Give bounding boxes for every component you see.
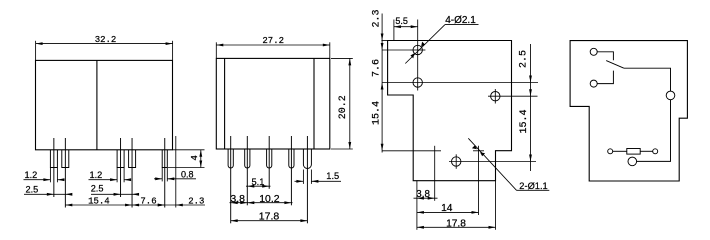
view3 left dim chain line <box>381 14 383 153</box>
view1 ext P1 edges <box>49 168 51 183</box>
view3 hole H2 (2.1) <box>413 78 422 87</box>
view1 case divider line <box>96 60 98 149</box>
view2 pin1 root <box>230 136 232 223</box>
view1 dim 4 line <box>200 150 202 168</box>
view1 relay case side outline <box>36 60 173 149</box>
view4 wire T2 up <box>597 71 613 84</box>
view1 pin P3 root <box>120 138 122 197</box>
view1 pin P5 root <box>164 138 166 208</box>
view4 coil terminal left <box>608 149 613 154</box>
svg-text:7.6: 7.6 <box>371 59 382 77</box>
view4 switch blade <box>606 61 624 69</box>
view2 arrows 1.5 pair <box>296 180 303 183</box>
view2 relay case front outline <box>216 58 329 149</box>
view3 H3 ticks and row line <box>488 95 538 97</box>
view4 wire T1 to pivot <box>597 52 613 61</box>
view2 pin3 <box>267 149 272 168</box>
view2 pin1 <box>228 149 233 168</box>
view1 dim 32.2 extension lines <box>35 41 37 60</box>
view2 dim 5.1 line <box>246 185 271 187</box>
view1 dim 32.2 line <box>36 43 173 45</box>
view4 terminal circle T3 <box>666 91 675 100</box>
view1 dim 2.5 left line <box>24 193 72 195</box>
svg-text:15.4: 15.4 <box>519 109 530 133</box>
svg-text:2.3: 2.3 <box>371 9 382 27</box>
view2 pin4 root <box>290 136 292 205</box>
view1 arrows 1.2 left pair <box>43 178 50 181</box>
view3 H4 ticks and row line <box>449 161 536 163</box>
svg-text:14: 14 <box>441 203 453 214</box>
view3 leader arrowhead 4-dia2.1 <box>421 42 425 47</box>
view2 dim 27.2 line <box>216 44 329 46</box>
view2 dim 1.5 line <box>295 180 304 182</box>
view1 dim 2.5 mid line <box>91 193 138 195</box>
svg-text:0.8: 0.8 <box>181 169 194 179</box>
view3 ext bottom right corner <box>495 181 497 230</box>
view1 arrows 0.8 pair <box>155 177 162 180</box>
view4 coil wire left <box>613 150 627 152</box>
view1 pin P2 <box>62 150 69 168</box>
view3 arrows 3.8 pair <box>417 197 424 200</box>
view3 arrows 14 pair <box>417 211 424 214</box>
view3 small hole C1 cross <box>382 150 441 152</box>
view3 PCB layout outline <box>388 41 512 181</box>
view1 pin P2 root <box>64 138 66 208</box>
svg-text:32.2: 32.2 <box>95 35 117 45</box>
svg-text:1.2: 1.2 <box>25 170 38 180</box>
view4 wire T3 down to COM line <box>637 100 671 162</box>
view2 pin5 root <box>306 136 308 223</box>
svg-text:4: 4 <box>189 155 200 161</box>
view1 arrows 15.4 pair <box>65 204 72 207</box>
view4 terminal circle T2 <box>590 80 597 87</box>
svg-text:2.5: 2.5 <box>91 183 104 193</box>
view4 wire blade to T3 <box>624 68 671 91</box>
view2 arrow 27.2 right <box>323 44 330 47</box>
svg-text:17.8: 17.8 <box>446 218 466 229</box>
view3 row line top edge to chain <box>381 40 387 42</box>
svg-text:15.4: 15.4 <box>371 101 382 125</box>
view4 coil terminal right <box>653 149 658 154</box>
view2 pin2 root <box>246 136 248 205</box>
view1 arrows 2.3 pair <box>158 204 165 207</box>
view2 arrow 20.2 top <box>348 58 351 65</box>
view2 pin2 <box>245 149 250 168</box>
view1 pin P1 <box>50 150 57 168</box>
view3 label 4-dia2.1 leader <box>405 25 445 64</box>
view2 arrow 27.2 left <box>216 44 223 47</box>
view1 arrow 32.2 right <box>166 42 173 45</box>
view4 terminal circle T1 <box>590 48 597 55</box>
view2 arrows 10.2 pair <box>247 201 254 204</box>
svg-text:17.8: 17.8 <box>259 211 280 223</box>
view1 dim 1.2 mid line <box>89 179 118 181</box>
svg-text:5.1: 5.1 <box>252 177 265 187</box>
view1 ext right of case for 2.3 <box>175 136 177 208</box>
view2 dim 20.2 ext lines <box>331 57 353 59</box>
view3 H1 H2 vertical centerline <box>417 20 419 91</box>
view3 H1 horizontal ticks <box>410 49 425 51</box>
view4 schematic outline <box>570 41 687 181</box>
view1 arrows 1.2 mid pair <box>110 178 117 181</box>
view3 dim 5.5 line <box>394 26 418 28</box>
svg-text:10.2: 10.2 <box>259 193 280 205</box>
view2 case inner left line <box>224 58 226 149</box>
view3 right dim chain line <box>530 44 532 171</box>
view2 pin5 <box>303 149 311 169</box>
svg-text:5.5: 5.5 <box>395 16 408 26</box>
view2 case inner right line <box>313 58 315 149</box>
view3 dim 5.5 ext line <box>393 20 395 41</box>
view1 arrow 32.2 left <box>36 42 43 45</box>
view1 pin P3 <box>117 150 124 168</box>
view1 pin P4 root <box>131 138 133 208</box>
svg-text:15.4: 15.4 <box>88 196 110 206</box>
view3 right chain arrows <box>529 76 532 83</box>
view3 arrows 17.8 pair <box>417 226 424 229</box>
view2 arrows 3.8 pair <box>231 201 238 204</box>
view2 arrow 20.2 bottom <box>348 142 351 149</box>
view3 small hole C2 cross <box>473 150 484 152</box>
view4 coil rectangle <box>627 149 640 155</box>
svg-text:4-Ø2.1: 4-Ø2.1 <box>445 15 476 26</box>
svg-text:27.2: 27.2 <box>262 36 284 46</box>
view2 pin3 root <box>268 136 270 189</box>
view1 dim 0.8 line <box>154 178 162 180</box>
svg-text:1.2: 1.2 <box>90 170 103 180</box>
svg-text:2.5: 2.5 <box>519 50 530 68</box>
svg-text:2.3: 2.3 <box>188 196 204 206</box>
view2 arrows 5.1 pair <box>247 185 254 188</box>
view3 label 2-dia1.1 underline <box>517 189 550 191</box>
view1 dim 1.2 left line <box>24 179 51 181</box>
view1 arrows 4 pair <box>199 150 202 157</box>
view2 pin4 <box>289 149 294 168</box>
svg-text:7.6: 7.6 <box>140 196 156 206</box>
view1 pin P1 root <box>53 138 55 197</box>
view3 hole H3 (2.1) <box>491 92 500 101</box>
view4 coil wire right <box>640 150 653 152</box>
svg-text:2.5: 2.5 <box>26 184 39 194</box>
view3 ext bottom left <box>416 181 418 230</box>
view2 dim 20.2 line <box>349 58 351 149</box>
svg-text:2-Ø1.1: 2-Ø1.1 <box>519 181 547 191</box>
view1 dim 4 ext top (case bottom extended) <box>173 149 205 151</box>
svg-text:3.8: 3.8 <box>230 193 245 205</box>
view3 hole H1 (2.1) <box>413 45 422 54</box>
view2 dim 27.2 ext lines <box>215 42 217 58</box>
view1 ext P5 edges <box>161 168 163 182</box>
view3 dim 17.8 line <box>417 226 496 228</box>
view1 dim chain 15.4 7.6 2.3 line <box>65 204 205 206</box>
svg-text:3.8: 3.8 <box>416 189 430 200</box>
view1 arrows 2.5 mid pair <box>114 193 121 196</box>
view2 dim 3.8 and 10.2 line <box>230 202 293 204</box>
view3 dim 14 line <box>417 211 479 213</box>
view1 pin P5 <box>162 150 167 168</box>
view2 ext pin5 edges <box>302 170 304 184</box>
view2 arrows 17.8 pair <box>231 219 238 222</box>
view1 dim 4 ext bottom <box>168 167 205 169</box>
view3 label 2-dia1.1 leader <box>468 138 516 190</box>
view3 row line hole2 (full width) <box>382 82 538 84</box>
view3 arrows 5.5 pair <box>394 25 401 28</box>
view3 left chain arrows <box>381 34 384 41</box>
view3 row line hole1 <box>382 49 410 51</box>
view1 pin P4 <box>129 150 136 168</box>
svg-text:1.5: 1.5 <box>326 171 339 181</box>
view1 arrows 7.6 pair <box>132 204 139 207</box>
view3 label 4-dia2.1 underline <box>445 24 479 26</box>
view3 dim 3.8 line <box>414 197 438 199</box>
view3 leader arrowhead 2-dia1.1 <box>480 152 485 156</box>
view2 dim 17.8 line <box>231 220 308 222</box>
view4 COM terminal circle <box>628 157 637 166</box>
view1 ext P3 edges <box>116 168 118 183</box>
svg-text:20.2: 20.2 <box>338 95 349 119</box>
view1 arrows 2.5 left pair <box>47 193 54 196</box>
view3 hole H4 (2.1) <box>452 157 461 166</box>
